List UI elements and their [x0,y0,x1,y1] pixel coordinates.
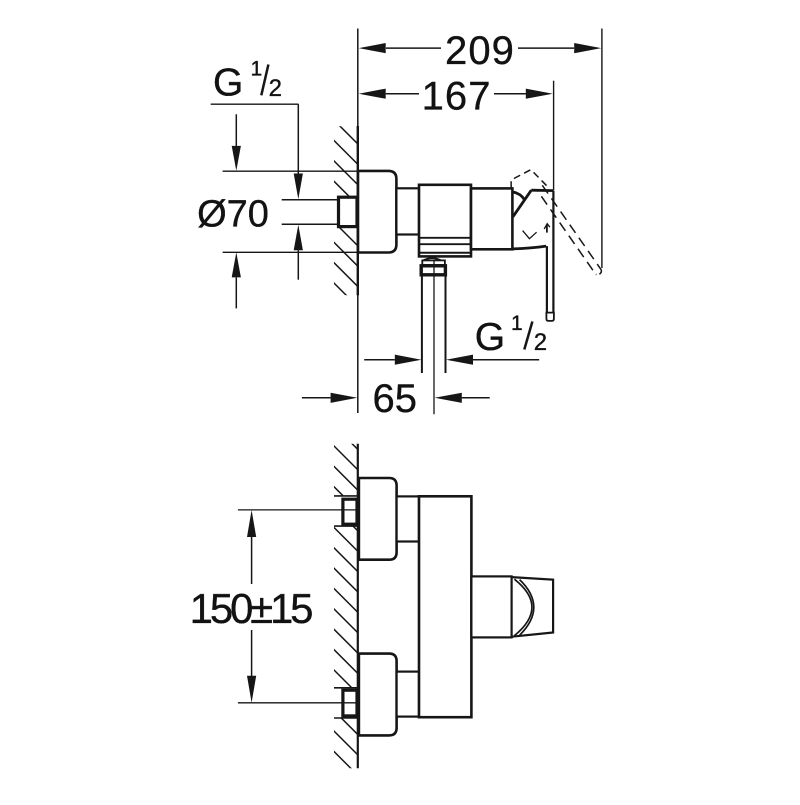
wall hatching group 3 (front view) [334,718,358,768]
dimension 209 right arrowhead [574,43,601,53]
dimension 65 right arrowhead [435,393,462,403]
svg-text:1: 1 [511,312,523,335]
lower mounting hole edges [334,687,358,689]
lever end cap [546,313,554,321]
lower S-union escutcheon block [359,654,397,736]
svg-text:1: 1 [251,57,263,80]
svg-text:2: 2 [534,329,547,356]
G 1/2 underline [211,103,299,105]
outlet pipe (G 1/2 shower hose connection) [421,275,423,373]
svg-text:2: 2 [269,75,282,102]
wall hatching lower group (side view) [334,227,358,295]
handle cap (front view) [512,577,553,637]
wall face line (front view) [357,444,359,769]
G 1/2 leader line with down arrow [297,104,299,174]
lower wall nut [343,690,357,716]
handle cap arc 2 [520,580,534,636]
outlet axis center line [433,260,435,415]
dimension 167 right arrowhead [526,89,553,99]
wall hatching group 2 (front view) [334,526,358,687]
wall hatching upper group (side view) [334,126,358,197]
neck between escutcheon and union nut [396,188,419,234]
mixer body (front view) [419,496,471,717]
dimension 167 line [386,93,419,95]
svg-text:150±15: 150±15 [190,585,312,632]
escutcheon (wall rosette, side view) [358,171,396,253]
cartridge housing [471,188,512,249]
dimension 150+-15 lower arrowhead [251,630,253,676]
svg-text:65: 65 [373,377,418,421]
handle cap arc 1 [514,579,532,635]
outlet collar 2 (thick ring) [421,266,445,275]
cone swing arc [513,192,525,200]
concealed supply pipe in wall [282,199,339,201]
dimension O70 lower arrow [232,252,241,277]
dimension 65 line [302,397,331,399]
dimension 150+-15 extension line bottom [238,702,357,704]
cone left slant [513,190,531,217]
pipe lower arrow (up) [294,225,303,251]
dimension O70 upper arrow [235,114,237,147]
dashed lever (45 deg position) upper line [542,185,601,270]
cone top edge (handle base, down position) [531,189,553,192]
dimension 150+-15 upper arrowhead [247,510,256,537]
upper mounting hole edges [334,495,358,497]
union nut body block [419,185,471,257]
lever (down position) right edge [552,191,554,313]
upper wall nut [343,499,357,524]
svg-text:167: 167 [422,75,492,119]
dashed knob bottom vertex [523,231,537,239]
threaded nipple in wall [339,197,358,226]
outlet collar 1 [422,260,445,265]
svg-text:G: G [475,316,505,359]
dashed lever lower line [537,190,596,275]
svg-text:G: G [213,61,243,104]
dash caret remnant [544,224,550,229]
lever (down position) left edge [546,246,548,313]
dashed handle knob (up position) [511,170,548,189]
svg-text:209: 209 [445,29,515,73]
extension line right (209) [601,29,603,269]
upper S-union escutcheon block [359,478,397,560]
outlet shoulder arc [423,258,442,261]
lower connection neck [397,672,419,717]
wall face line / extension line (side view) [357,29,359,414]
O70 extension line bottom [223,251,358,253]
dimension 209 line [386,47,441,49]
dimension 150+-15 extension line top [238,509,357,511]
wall hatching group 1 (front view) [334,444,358,496]
union nut ridge lines [419,237,471,239]
upper connection neck [397,496,419,541]
extension line (167) [553,81,555,190]
O70 extension line top [223,170,358,172]
dimension 167 left arrowhead [359,89,386,99]
dashed lever tip arc [596,270,602,275]
outlet pipe diameter dimension (arrows at y=359.7) [364,359,395,361]
handle neck (front view) [471,576,511,637]
svg-text:Ø70: Ø70 [197,193,269,235]
cone bottom edge [513,246,546,249]
dimension 209 left arrowhead [359,43,386,53]
